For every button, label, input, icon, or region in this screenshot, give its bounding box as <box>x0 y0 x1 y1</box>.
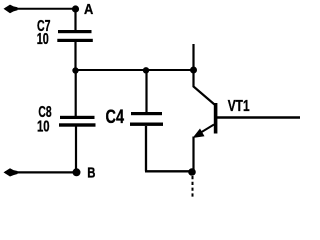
wire: bus down to C4 <box>145 70 147 113</box>
wire: emitter down to node <box>192 137 194 173</box>
wire: top stub above collector node <box>192 44 194 70</box>
wire: bottom horizontal B lead <box>5 171 73 173</box>
junction dot (C4 top node) <box>143 67 149 73</box>
node A junction dot <box>72 5 79 12</box>
svg-text:B: B <box>87 165 95 182</box>
capacitor C8 <box>60 116 95 119</box>
wire: collector lead down-right to transistor <box>194 70 215 105</box>
svg-text:C4: C4 <box>106 107 125 128</box>
svg-text:10: 10 <box>37 119 50 136</box>
wire: junction down to C8 <box>75 70 77 117</box>
junction dot (node under C7) <box>72 67 78 73</box>
transistor VT1 emitter lead with arrow <box>198 125 215 135</box>
capacitor C4 <box>131 112 162 115</box>
arrow: left-pointing arrowhead on A lead <box>4 5 18 14</box>
wire: dashed stub below emitter node <box>192 176 194 197</box>
wire: C8 down to node B <box>75 127 77 173</box>
transistor VT1 base bar <box>214 103 218 134</box>
svg-text:A: A <box>84 1 93 18</box>
capacitor C7 <box>58 30 92 33</box>
svg-text:10: 10 <box>37 31 49 48</box>
junction dot (emitter node) <box>188 168 196 176</box>
wire: A down to C7 <box>74 9 76 31</box>
junction dot (collector node) <box>190 67 197 74</box>
svg-text:VT1: VT1 <box>228 98 250 115</box>
node B junction dot <box>73 168 81 176</box>
wire: C7 down to mid junction <box>74 42 76 72</box>
wire: base lead to right edge <box>217 116 300 118</box>
wire: top horizontal A lead <box>5 8 75 10</box>
wire: C4 down and right to emitter node <box>145 126 192 171</box>
wire: mid horizontal bus to collector node <box>76 69 194 71</box>
arrow: left-pointing arrowhead on B lead <box>4 168 18 176</box>
